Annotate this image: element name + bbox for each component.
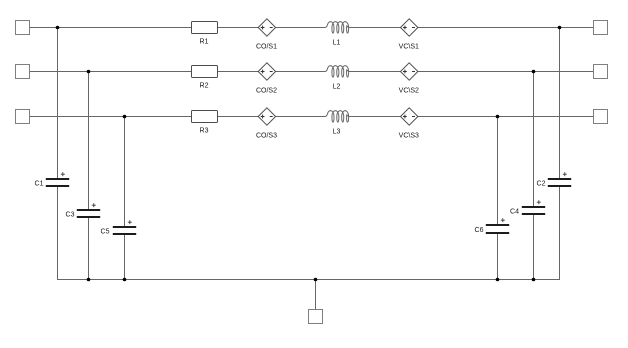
svg-text:C2: C2 [537, 181, 546, 188]
svg-text:VC\S2: VC\S2 [399, 88, 419, 95]
svg-text:C4: C4 [510, 209, 519, 216]
svg-text:C3: C3 [66, 212, 75, 219]
svg-text:L2: L2 [333, 83, 341, 90]
svg-text:CO/S2: CO/S2 [256, 88, 277, 95]
svg-text:VC\S1: VC\S1 [399, 44, 419, 51]
svg-text:C5: C5 [101, 229, 110, 236]
svg-text:C6: C6 [475, 227, 484, 234]
svg-text:C1: C1 [35, 181, 44, 188]
svg-text:L3: L3 [333, 128, 341, 135]
svg-text:R1: R1 [200, 38, 209, 45]
svg-text:CO/S1: CO/S1 [256, 44, 277, 51]
svg-text:CO/S3: CO/S3 [256, 133, 277, 140]
svg-text:R2: R2 [200, 82, 209, 89]
svg-text:VC\S3: VC\S3 [399, 133, 419, 140]
svg-text:R3: R3 [200, 127, 209, 134]
svg-text:L1: L1 [333, 39, 341, 46]
